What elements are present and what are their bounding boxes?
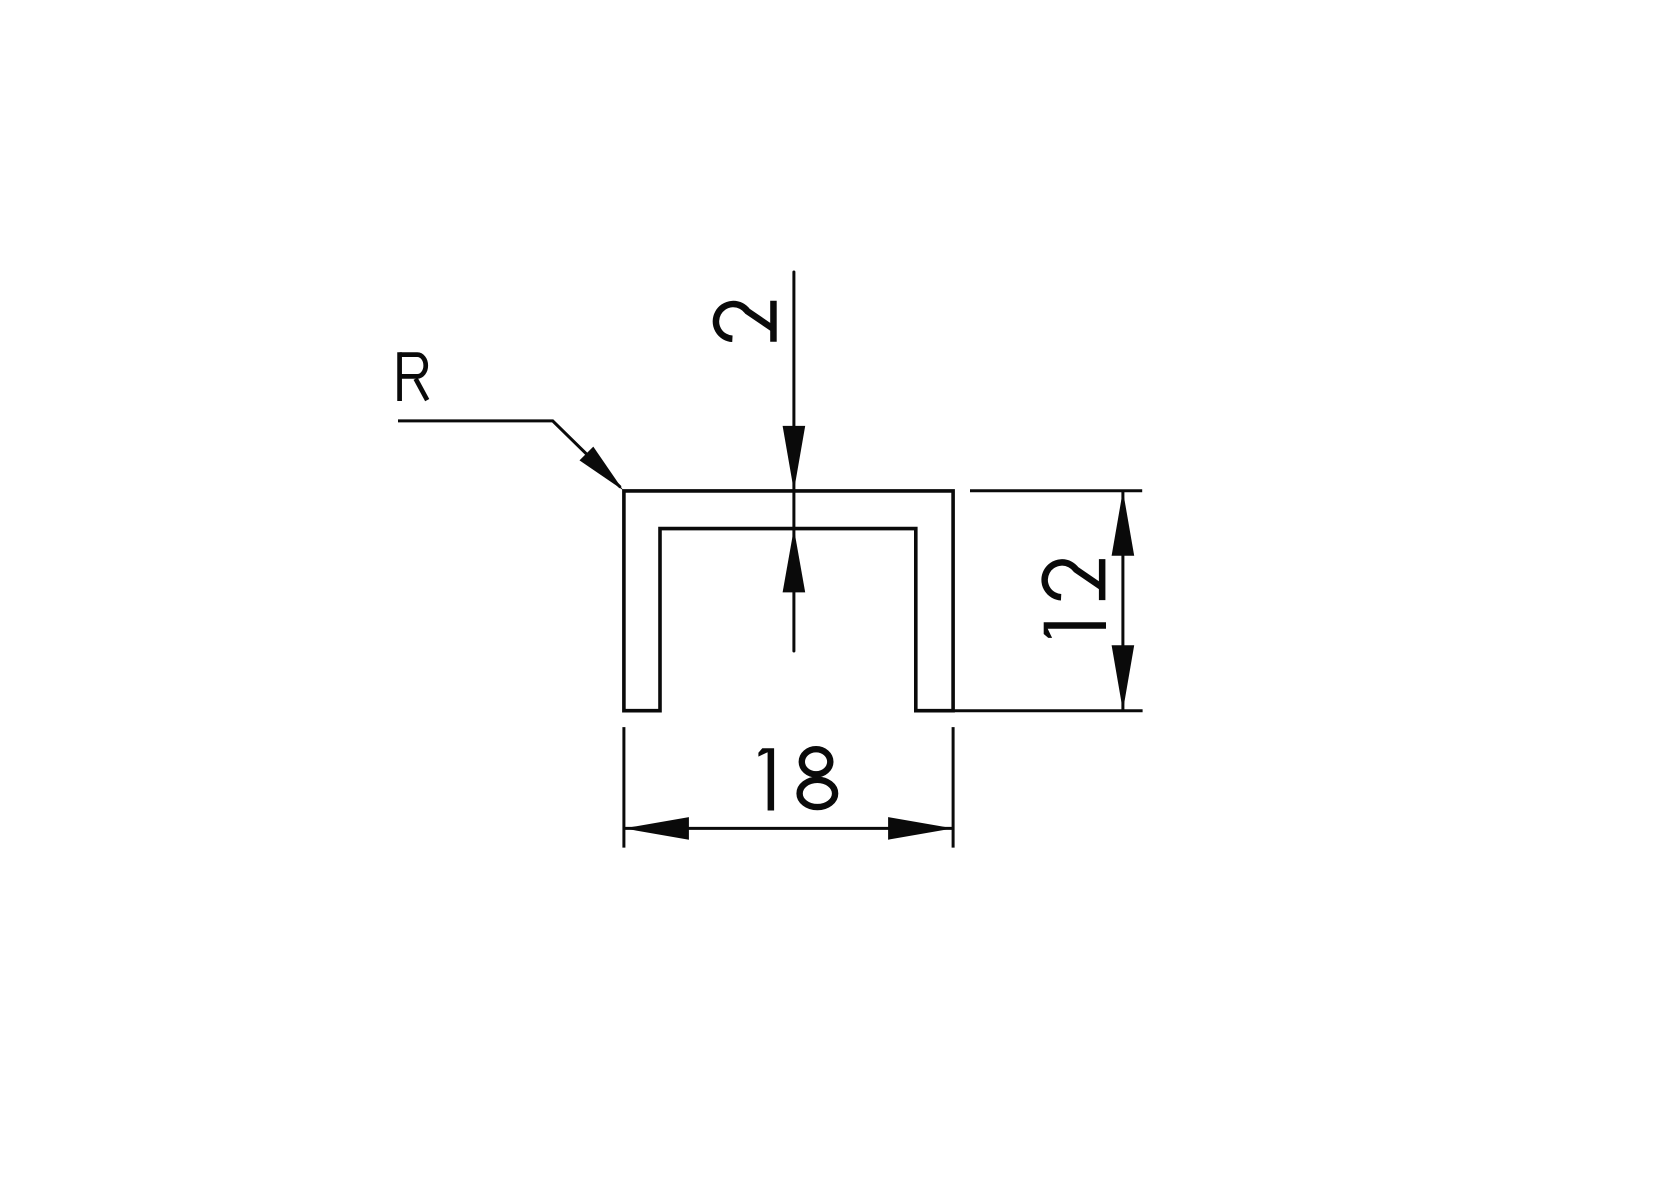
label R	[400, 352, 428, 401]
arrow down for 12	[1112, 645, 1135, 711]
arrow left for 18	[624, 817, 689, 840]
U-channel profile outline	[624, 491, 953, 711]
extension line bottom for 12 (continues leg bottom)	[916, 709, 1143, 712]
dimension line for 2 (vertical)	[792, 272, 795, 651]
label 2 (rotated)	[716, 301, 774, 342]
extension line left for 18	[622, 727, 625, 848]
leader line for R	[398, 421, 621, 487]
label 12 (rotated) : digit 1	[1044, 622, 1106, 638]
label 18 : digit 1	[758, 748, 774, 810]
dimension line for 18 (horizontal)	[624, 827, 953, 830]
arrow right for 18	[888, 817, 953, 840]
label 12 (rotated) : digit 2	[1045, 559, 1103, 600]
arrow up to inner top surface	[783, 529, 806, 593]
leader arrowhead	[580, 447, 624, 491]
arrow up for 12	[1112, 491, 1135, 556]
arrow down to outer top surface	[783, 426, 806, 491]
label 18 : digit 8	[800, 749, 836, 807]
dimension line for 12 (vertical)	[1121, 491, 1124, 711]
extension line right for 18	[952, 727, 955, 848]
extension line top for 12	[970, 489, 1142, 492]
